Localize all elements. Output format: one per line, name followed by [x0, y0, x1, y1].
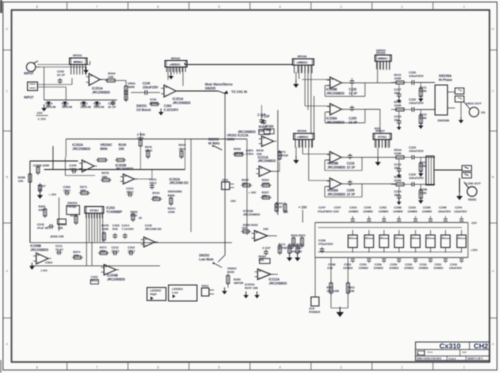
svg-text:JRC2068DD: JRC2068DD — [326, 120, 345, 124]
svg-text:1R2 1/2W: 1R2 1/2W — [327, 289, 340, 293]
svg-text:IC212A: IC212A — [238, 134, 250, 138]
svg-text:1k5: 1k5 — [242, 226, 247, 230]
svg-text:104MR2: 104MR2 — [379, 209, 389, 213]
svg-text:-: - — [260, 173, 261, 177]
svg-text:2 21P: 2 21P — [257, 113, 266, 117]
svg-text:1R2J: 1R2J — [126, 190, 134, 194]
svg-text:RP208: RP208 — [297, 129, 307, 133]
svg-text:100K: 100K — [227, 138, 235, 142]
svg-text:1042: 1042 — [333, 209, 339, 213]
svg-text:100uF/25V: 100uF/25V — [438, 209, 451, 213]
svg-text:0.22/100V: 0.22/100V — [164, 108, 179, 112]
svg-text:C247: C247 — [319, 206, 326, 210]
svg-text:-15V: -15V — [471, 221, 477, 225]
svg-text:Cx310: Cx310 — [439, 342, 460, 351]
svg-text:850K: 850K — [168, 193, 176, 197]
svg-text:+: + — [83, 161, 85, 165]
svg-text:R276: R276 — [70, 213, 77, 217]
svg-text:1R2J: 1R2J — [63, 189, 71, 193]
svg-text:+: + — [331, 104, 333, 108]
svg-text:22 1P: 22 1P — [347, 165, 356, 169]
svg-text:JRC2068DD: JRC2068DD — [92, 90, 111, 94]
svg-text:3: 3 — [340, 5, 342, 9]
svg-text:1N4148: 1N4148 — [45, 105, 56, 109]
svg-text:A: A — [6, 269, 8, 273]
svg-text:15-0J: 15-0J — [111, 249, 119, 253]
svg-text:22 1P: 22 1P — [349, 91, 358, 95]
svg-text:RP206: RP206 — [297, 63, 304, 65]
svg-text:C244: C244 — [455, 206, 462, 210]
svg-text:RT08J: RT08J — [378, 135, 387, 139]
svg-text:2 21P: 2 21P — [262, 246, 270, 250]
svg-text:+ -: + - — [458, 235, 462, 239]
svg-text:680K: 680K — [128, 85, 136, 89]
svg-text:+: + — [260, 167, 262, 171]
svg-text:6V8: 6V8 — [112, 227, 118, 231]
svg-text:7: 7 — [96, 5, 98, 9]
svg-text:JRC2068DD: JRC2068DD — [326, 91, 345, 95]
svg-text:6: 6 — [157, 365, 159, 369]
svg-text:1 KU: 1 KU — [41, 269, 48, 273]
svg-text:JRC2068 DD: JRC2068 DD — [169, 181, 189, 185]
svg-text:+ -: + - — [396, 235, 400, 239]
svg-text:100uF/25V: 100uF/25V — [409, 74, 424, 78]
svg-text:+: + — [145, 238, 147, 242]
svg-text:LOW OUT: LOW OUT — [466, 181, 481, 185]
svg-text:C262: C262 — [380, 206, 387, 210]
svg-text:A: A — [492, 342, 494, 346]
svg-text:C246: C246 — [364, 206, 371, 210]
svg-text:C23N: C23N — [423, 206, 431, 210]
svg-text:RP202: RP202 — [170, 64, 177, 66]
svg-text:10K 10K: 10K 10K — [291, 250, 302, 254]
svg-text:104MS2: 104MS2 — [404, 266, 414, 270]
svg-text:150R: 150R — [394, 151, 402, 155]
svg-text:RP206: RP206 — [298, 55, 308, 59]
svg-text:104MS2: 104MS2 — [434, 266, 444, 270]
svg-text:SW205: SW205 — [205, 86, 216, 90]
svg-text:104MS2: 104MS2 — [359, 266, 369, 270]
svg-text:C256: C256 — [390, 262, 397, 266]
svg-text:22 1P: 22 1P — [347, 192, 356, 196]
svg-text:104MR2: 104MR2 — [363, 209, 373, 213]
svg-text:+ -: + - — [366, 235, 370, 239]
svg-text:100uF/25V: 100uF/25V — [143, 85, 160, 89]
svg-text:+ -: + - — [349, 235, 353, 239]
svg-text:104MR2: 104MR2 — [393, 209, 403, 213]
svg-text:Low Mute: Low Mute — [199, 257, 214, 261]
svg-text:3: 3 — [340, 365, 342, 369]
svg-text:7.1V/16V: 7.1V/16V — [122, 227, 134, 231]
svg-text:C201: C201 — [435, 262, 442, 266]
svg-text:R220 R223: R220 R223 — [291, 234, 306, 238]
svg-text:JRC2068DD: JRC2068DD — [72, 147, 91, 151]
svg-text:JRC2068DD: JRC2068DD — [258, 159, 277, 163]
svg-text:TITLE: TITLE — [427, 352, 433, 354]
svg-text:+ -: + - — [442, 235, 446, 239]
svg-text:-: - — [259, 276, 260, 280]
svg-text:DWG CX310-CH2-SCH: DWG CX310-CH2-SCH — [417, 359, 442, 361]
svg-text:Hi Phase: Hi Phase — [439, 78, 453, 82]
svg-text:CD Boost: CD Boost — [136, 108, 151, 112]
svg-text:810K: 810K — [227, 270, 235, 274]
svg-text:TC4066BP: TC4066BP — [106, 210, 123, 214]
svg-text:JRC20M DD: JRC20M DD — [145, 227, 162, 231]
svg-text:RP208: RP208 — [297, 137, 304, 139]
svg-text:+: + — [124, 175, 126, 179]
svg-text:J152: J152 — [222, 178, 229, 182]
svg-text:150R: 150R — [394, 178, 402, 182]
svg-text:C219: C219 — [420, 262, 427, 266]
svg-text:-16V: -16V — [230, 199, 236, 203]
svg-text:150R: 150R — [394, 77, 402, 81]
svg-text:C29B: C29B — [394, 206, 402, 210]
svg-text:10K: 10K — [283, 210, 288, 214]
svg-text:RP202: RP202 — [171, 56, 181, 60]
svg-text:4: 4 — [279, 365, 281, 369]
svg-text:104MS2: 104MS2 — [389, 266, 399, 270]
svg-text:+: + — [165, 86, 167, 90]
svg-text:473uF/6R3V: 473uF/6R3V — [318, 209, 333, 213]
svg-text:-: - — [145, 243, 146, 247]
svg-text:+ -: + - — [381, 235, 385, 239]
svg-text:Low: Low — [172, 291, 179, 295]
svg-text:SHEET 2 OF 2: SHEET 2 OF 2 — [468, 359, 484, 361]
svg-text:10K: 10K — [119, 147, 126, 151]
svg-text:JRC2068DD: JRC2068DD — [269, 281, 288, 285]
svg-text:-: - — [83, 168, 84, 172]
svg-text:SW206B: SW206B — [438, 119, 450, 123]
svg-text:RP201: RP201 — [74, 62, 81, 64]
svg-text:C20B: C20B — [328, 262, 336, 266]
svg-text:8: 8 — [36, 365, 38, 369]
svg-text:-: - — [331, 111, 332, 115]
svg-text:INPUT: INPUT — [24, 96, 34, 100]
svg-text:JRC2068DD: JRC2068DD — [327, 192, 346, 196]
svg-text:+: + — [263, 137, 265, 141]
svg-text:-: - — [90, 82, 91, 86]
svg-text:SIZE: SIZE — [462, 352, 467, 354]
svg-text:HIGH OUT: HIGH OUT — [466, 102, 481, 106]
svg-text:47uF 6R: 47uF 6R — [37, 226, 50, 230]
svg-text:R247 10K: R247 10K — [245, 286, 259, 290]
svg-text:-: - — [165, 93, 166, 97]
svg-text:C2b0: C2b0 — [45, 260, 53, 264]
svg-text:5R12: 5R12 — [91, 279, 98, 283]
svg-text:1042: 1042 — [327, 266, 333, 270]
svg-text:C229: C229 — [405, 262, 412, 266]
svg-text:POWER: POWER — [309, 310, 321, 314]
svg-text:-1 15V: -1 15V — [37, 117, 46, 121]
svg-text:22 1P: 22 1P — [108, 105, 116, 109]
svg-text:JRC2068DD: JRC2068DD — [30, 248, 49, 252]
svg-text:2: 2 — [401, 5, 403, 9]
svg-text:100uF/25V: 100uF/25V — [409, 149, 424, 153]
svg-text:1N4148: 1N4148 — [80, 105, 91, 109]
svg-text:8: 8 — [36, 5, 38, 9]
svg-text:10K: 10K — [18, 179, 24, 183]
svg-text:JRC2068DD: JRC2068DD — [173, 101, 192, 105]
svg-text:5: 5 — [218, 5, 220, 9]
svg-text:150K: 150K — [168, 210, 176, 214]
svg-text:+ -: + - — [427, 235, 431, 239]
svg-text:A: A — [417, 353, 419, 356]
svg-text:+: + — [259, 270, 261, 274]
svg-text:1N4148: 1N4148 — [62, 105, 73, 109]
svg-text:-: - — [37, 260, 38, 264]
svg-text:+: + — [331, 78, 333, 82]
svg-text:22 1P: 22 1P — [57, 73, 65, 77]
svg-text:133uF/25V: 133uF/25V — [454, 209, 467, 213]
svg-text:J2006 10R: J2006 10R — [50, 235, 64, 239]
svg-text:22 1P: 22 1P — [349, 120, 358, 124]
svg-text:-: - — [124, 180, 125, 184]
svg-text:S6(2B): S6(2B) — [468, 198, 476, 202]
svg-text:CH2: CH2 — [474, 342, 488, 351]
svg-text:C207: C207 — [334, 206, 341, 210]
svg-text:+: + — [90, 74, 92, 78]
svg-text:49POR: 49POR — [234, 281, 245, 285]
svg-text:+ -: + - — [412, 235, 416, 239]
svg-text:1: 1 — [463, 5, 465, 9]
svg-text:104MR2: 104MR2 — [422, 209, 432, 213]
svg-text:2: 2 — [401, 365, 403, 369]
svg-text:S18: S18 — [481, 113, 486, 115]
svg-text:10K: 10K — [58, 226, 64, 230]
svg-text:100uF/25V: 100uF/25V — [409, 101, 424, 105]
svg-text:7: 7 — [96, 365, 98, 369]
svg-text:INPUT: INPUT — [24, 72, 34, 76]
svg-text:C204B 220R: C204B 220R — [33, 164, 49, 168]
svg-text:5: 5 — [218, 365, 220, 369]
svg-text:P202: P202 — [202, 284, 209, 288]
svg-text:C253: C253 — [360, 262, 367, 266]
svg-text:B/RP205: B/RP205 — [376, 50, 386, 52]
svg-text:850K: 850K — [100, 147, 108, 151]
svg-text:+15V: +15V — [471, 248, 478, 252]
svg-text:JRC2068DD: JRC2068DD — [243, 213, 261, 217]
svg-text:A: A — [6, 342, 8, 346]
svg-text:-: - — [263, 143, 264, 147]
svg-text:-15V: -15V — [36, 111, 43, 115]
svg-text:+ 15V: + 15V — [49, 193, 57, 197]
svg-text:TO CH1 IN: TO CH1 IN — [231, 90, 247, 94]
svg-text:C203: C203 — [344, 262, 351, 266]
svg-text:Hi 9kHz: Hi 9kHz — [208, 142, 220, 146]
svg-text:+: + — [331, 152, 333, 156]
svg-text:RP201: RP201 — [73, 54, 83, 58]
svg-text:A: A — [492, 269, 494, 273]
svg-text:SCALE: SCALE — [449, 358, 457, 361]
svg-text:RT08J: RT08J — [90, 209, 99, 213]
svg-text:C20A: C20A — [350, 206, 358, 210]
svg-text:10K: 10K — [263, 227, 269, 231]
svg-text:+: + — [37, 254, 39, 258]
svg-text:-: - — [256, 237, 257, 241]
svg-text:104MS2: 104MS2 — [374, 266, 384, 270]
svg-text:100uF/25V: 100uF/25V — [409, 176, 424, 180]
svg-text:1R2J: 1R2J — [128, 249, 136, 253]
svg-text:+: + — [331, 179, 333, 183]
svg-text:100uF/25V: 100uF/25V — [449, 266, 462, 270]
svg-text:104MR2: 104MR2 — [408, 209, 418, 213]
svg-text:6: 6 — [157, 5, 159, 9]
svg-text:104MS2: 104MS2 — [419, 266, 429, 270]
svg-text:RP205: RP205 — [378, 59, 385, 61]
svg-text:C259: C259 — [375, 262, 382, 266]
svg-text:1: 1 — [463, 365, 465, 369]
svg-text:B: B — [6, 175, 8, 179]
svg-text:+ 15V: + 15V — [299, 206, 308, 210]
svg-text:1N4148: 1N4148 — [94, 105, 105, 109]
svg-text:10K: 10K — [152, 195, 158, 199]
svg-text:4: 4 — [279, 5, 281, 9]
svg-text:1R2J: 1R2J — [149, 181, 157, 185]
svg-text:54POR: 54POR — [278, 154, 289, 158]
svg-text:JRC2068DD: JRC2068DD — [327, 165, 346, 169]
svg-text:B20U: B20U — [375, 129, 381, 131]
svg-text:+ 16V: + 16V — [248, 191, 256, 195]
svg-text:C24R: C24R — [439, 206, 447, 210]
svg-text:104MR2: 104MR2 — [349, 209, 359, 213]
svg-text:+: + — [256, 231, 258, 235]
svg-text:C243: C243 — [450, 262, 457, 266]
svg-text:B: B — [492, 175, 494, 179]
svg-text:15-0J: 15-0J — [55, 248, 63, 252]
svg-text:+: + — [105, 265, 107, 269]
svg-text:-1R: -1R — [138, 217, 142, 220]
svg-text:1/2W: 1/2W — [348, 289, 355, 293]
svg-text:C23A: C23A — [409, 206, 417, 210]
svg-text:150R: 150R — [394, 104, 402, 108]
svg-text:High: High — [150, 292, 157, 296]
svg-text:470uF/25V: 470uF/25V — [318, 242, 333, 246]
svg-text:JRC2068DD: JRC2068DD — [107, 277, 126, 281]
